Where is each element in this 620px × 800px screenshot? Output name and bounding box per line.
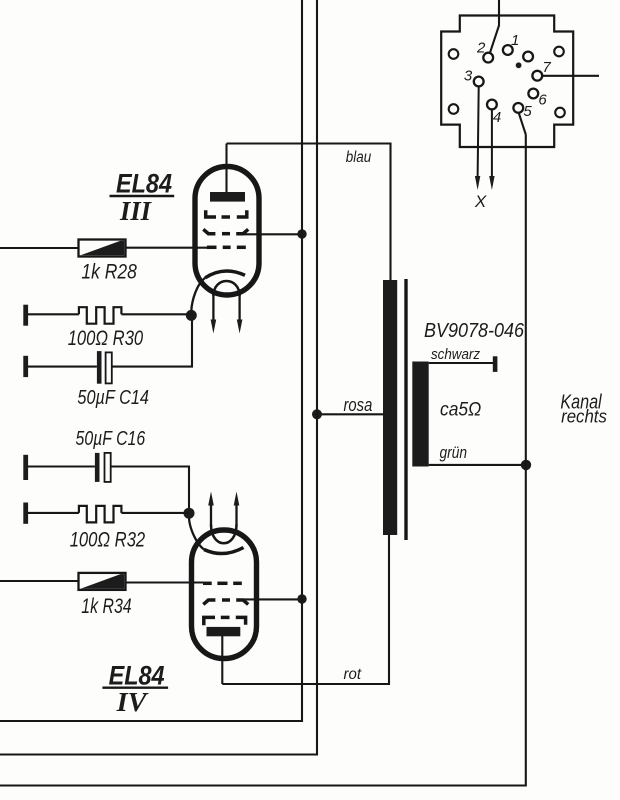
svg-text:100Ω R30: 100Ω R30 <box>68 326 144 350</box>
tube III anode <box>210 192 245 202</box>
wire terminal to R32 <box>28 512 79 514</box>
tube III heater lead arrow right <box>237 294 243 334</box>
wire pin 2 up <box>490 0 499 53</box>
pin 1a inner circle <box>523 52 533 62</box>
capacitor C16 plate positive <box>105 453 111 482</box>
resistor R30 meander <box>79 307 122 324</box>
junction dot cathode III / R30 / C14 <box>186 310 197 321</box>
resistor R32 meander <box>79 506 122 523</box>
pin 3 <box>474 77 484 87</box>
wire tube III anode up <box>225 144 227 194</box>
svg-text:2: 2 <box>476 40 486 57</box>
tube III heater lead arrow left <box>211 294 217 334</box>
wire cathode III to junction <box>191 278 205 311</box>
terminal bar R30 left <box>23 305 28 326</box>
svg-text:50µF C14: 50µF C14 <box>77 386 149 409</box>
junction dot rosa on bus B <box>312 409 322 419</box>
wire bus A vertical and bottom return <box>0 0 302 721</box>
svg-text:ca5Ω: ca5Ω <box>440 399 481 421</box>
terminal bar C14 left <box>23 356 28 377</box>
wire pin 7 right <box>542 75 599 77</box>
center index dot <box>516 62 522 68</box>
fraction line EL84/III <box>110 195 175 197</box>
pin 1 <box>503 45 513 55</box>
svg-text:50µF C16: 50µF C16 <box>76 427 146 450</box>
tube III heater hairpin <box>213 281 239 296</box>
transformer secondary winding <box>412 362 428 467</box>
tube IV heater hairpin <box>211 525 237 544</box>
mounting hole bottom left <box>449 104 459 114</box>
wire tube IV anode down <box>221 636 223 684</box>
wire C14 to junction riser <box>112 320 192 367</box>
label EL84 IV <box>109 661 165 718</box>
capacitor C14 plate positive <box>106 352 112 383</box>
svg-text:EL84: EL84 <box>116 169 172 199</box>
svg-text:1k R28: 1k R28 <box>81 260 136 284</box>
svg-text:1: 1 <box>511 32 519 49</box>
junction dot g2 III on bus A <box>297 229 306 238</box>
resistor R28 <box>79 240 126 257</box>
pin 6 <box>528 89 538 99</box>
wire gruen secondary bottom <box>429 464 526 466</box>
wire C16 to junction riser <box>111 467 189 509</box>
fraction line EL84/IV <box>102 687 168 689</box>
svg-text:rechts: rechts <box>561 407 607 427</box>
tube IV heater lead arrow left <box>208 492 214 527</box>
wire grid lead from left edge to R28 <box>0 247 79 249</box>
wire terminal to C16 <box>28 465 95 467</box>
wire grid lead from left edge to R34 <box>0 580 79 582</box>
wire rosa bus B to primary <box>317 413 383 415</box>
wire R32 to junction <box>121 512 189 514</box>
svg-text:BV9078-046: BV9078-046 <box>424 319 525 342</box>
mounting hole bottom right <box>555 108 565 118</box>
connector outline <box>441 16 573 148</box>
svg-text:X: X <box>474 192 487 211</box>
wire tube IV g2 to bus A <box>244 598 302 600</box>
wire R28 to tube III grid g1 <box>126 247 208 249</box>
tube EL84 III envelope <box>195 167 259 296</box>
pin 4 <box>487 100 497 110</box>
junction dot g2 IV on bus A <box>297 594 306 603</box>
transformer core <box>404 279 407 540</box>
wire terminal to C14 <box>28 366 97 368</box>
svg-text:IV: IV <box>116 687 149 717</box>
mounting hole top right <box>554 47 564 57</box>
tube EL84 IV envelope <box>192 530 257 659</box>
junction dot gruen on speaker line <box>521 460 531 470</box>
svg-text:EL84: EL84 <box>109 661 165 691</box>
capacitor C16 plate negative <box>95 453 100 482</box>
tube IV grid g3 row <box>204 617 246 625</box>
label Kanal rechts <box>560 391 607 426</box>
wire schwarz secondary top <box>429 362 494 364</box>
svg-text:4: 4 <box>493 109 501 126</box>
wire R30 to junction <box>121 313 191 315</box>
terminal bar R32 left <box>23 503 28 524</box>
tube IV grid g1 row <box>203 582 242 586</box>
svg-text:grün: grün <box>440 444 468 462</box>
wire blau anode III to primary top <box>227 144 391 281</box>
terminal bar C16 left <box>23 455 28 480</box>
wire pin 4 heater arrow <box>489 110 494 191</box>
tube IV grid g2 row <box>203 600 248 604</box>
transformer primary winding <box>383 280 397 535</box>
svg-text:III: III <box>119 196 152 226</box>
svg-text:blau: blau <box>346 149 372 166</box>
svg-text:6: 6 <box>538 92 547 109</box>
svg-text:schwarz: schwarz <box>431 346 480 363</box>
tube III grid g2 row <box>203 229 248 233</box>
wire rot anode IV to primary bottom <box>222 535 389 684</box>
wire pin 5 to speaker line <box>519 113 526 135</box>
label EL84 III <box>116 169 172 227</box>
wire bus B vertical and bottom return <box>0 0 317 755</box>
svg-text:rot: rot <box>344 666 362 683</box>
svg-text:7: 7 <box>542 59 551 76</box>
junction dot cathode IV / R32 / C16 <box>184 508 195 519</box>
svg-text:3: 3 <box>464 68 473 85</box>
pin 5 <box>513 103 523 113</box>
svg-text:100Ω R32: 100Ω R32 <box>70 528 146 552</box>
wire speaker line pin5 down and bottom return <box>0 135 526 786</box>
tube III grid g1 row <box>207 246 246 250</box>
tube IV heater lead arrow right <box>234 492 240 527</box>
pin 2 <box>483 53 493 63</box>
resistor R34 <box>79 573 126 590</box>
capacitor C14 plate negative <box>97 351 102 384</box>
tube IV anode <box>207 627 241 636</box>
mounting hole top left <box>449 49 459 59</box>
tube III cathode <box>205 271 245 278</box>
wire R34 to tube IV grid g1 <box>126 581 204 583</box>
svg-text:1k R34: 1k R34 <box>81 594 131 618</box>
pin 7 <box>532 71 542 81</box>
svg-text:rosa: rosa <box>344 395 373 415</box>
wire terminal to R30 <box>28 313 79 315</box>
wire cathode IV to junction <box>189 518 204 550</box>
tube III grid g3 row <box>206 210 247 217</box>
wire pin 3 heater arrow <box>475 87 480 191</box>
wire tube III g2 to bus A <box>244 233 302 235</box>
terminal bar schwarz <box>493 356 498 372</box>
tube IV cathode <box>204 548 244 554</box>
svg-text:5: 5 <box>523 103 532 120</box>
